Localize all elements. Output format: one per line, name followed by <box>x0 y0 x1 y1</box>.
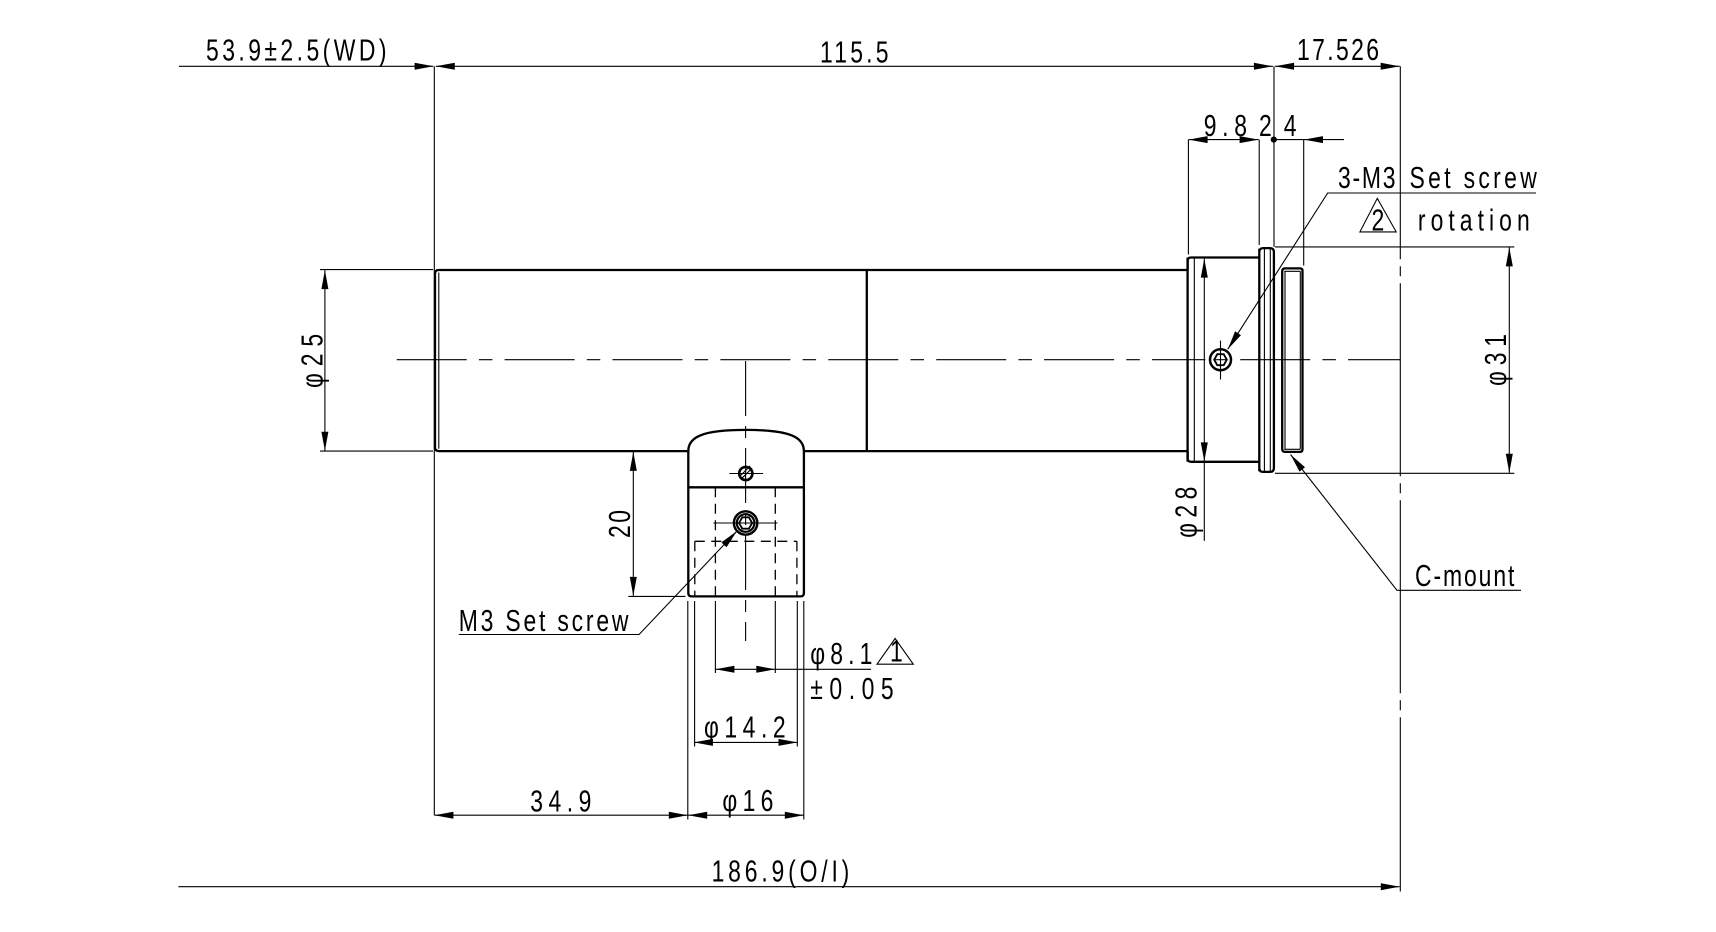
phi31 top extension line <box>1275 246 1514 248</box>
3-M3 leader underline and diagonal <box>1228 193 1536 349</box>
phi28 ring outline <box>1188 258 1259 462</box>
triangle note 2 <box>1360 198 1396 232</box>
extension line 9.8 left <box>1187 140 1189 255</box>
C-mount thread relief lines <box>1284 270 1300 272</box>
svg-text:φ16: φ16 <box>722 783 773 818</box>
svg-text:±0.05: ±0.05 <box>810 671 893 706</box>
phi8.1 dimension line <box>715 668 871 670</box>
block vertical centerline <box>745 361 747 641</box>
svg-text:1: 1 <box>890 633 903 668</box>
phi25 top extension line <box>320 269 433 271</box>
phi31 bottom extension line <box>1275 472 1514 474</box>
barrel left face chamfer line <box>438 273 440 449</box>
3-M3 set screw on phi28 ring <box>1210 349 1231 370</box>
lens barrel phi25 outline <box>435 270 1188 451</box>
dimension 4 line with outside arrow <box>1274 139 1344 141</box>
M3 set screw in block <box>734 511 757 534</box>
dimension 115.5 line <box>436 65 1273 67</box>
34.9 dimension line <box>434 814 687 816</box>
extension line 9.8 right / 2 left <box>1258 140 1260 245</box>
extension line x=1274 (flange right face plane) <box>1273 66 1275 247</box>
barrel joint line <box>866 270 868 451</box>
svg-text:115.5: 115.5 <box>820 34 889 69</box>
dot terminator between dims 2 and 4 <box>1271 137 1277 143</box>
phi28 ring chamfer line <box>1193 258 1195 461</box>
phi31 dimension line <box>1508 247 1510 472</box>
svg-text:2: 2 <box>1259 107 1272 142</box>
triangle note 1 <box>877 639 913 665</box>
extension line 4 right <box>1303 140 1305 266</box>
C-mount leader underline and diagonal <box>1291 455 1522 591</box>
phi8.1 extension lines <box>714 601 716 673</box>
svg-text:53.9±2.5(WD): 53.9±2.5(WD) <box>206 32 386 67</box>
svg-text:M3 Set screw: M3 Set screw <box>459 602 629 637</box>
phi14.2 extension lines <box>694 601 696 747</box>
20 bottom extension line <box>628 595 685 597</box>
phi16 dimension line <box>688 814 804 816</box>
svg-text:C-mount: C-mount <box>1415 557 1515 592</box>
dimension 186.9 O/I line <box>178 886 1399 888</box>
hidden line phi14.2 counterbore left <box>694 541 696 596</box>
C-mount flange focal plane line x=1400 <box>1399 66 1401 891</box>
dimension 53.9 WD line <box>179 65 433 67</box>
svg-text:φ14.2: φ14.2 <box>704 709 786 744</box>
hidden line phi8.1 bore right <box>774 487 776 596</box>
20 dimension line <box>632 452 634 596</box>
svg-text:4: 4 <box>1284 107 1297 142</box>
top slotted screw on block dome <box>739 467 752 480</box>
M3 leader underline and diagonal <box>459 531 737 635</box>
mounting block outline with dome top <box>688 430 804 597</box>
svg-text:φ28: φ28 <box>1168 487 1203 538</box>
block top face line <box>688 486 804 488</box>
svg-text:φ31: φ31 <box>1478 334 1513 386</box>
svg-text:φ8.1: φ8.1 <box>810 636 872 671</box>
ring screw crosshair <box>1220 341 1222 380</box>
block left edge extension below <box>687 601 689 820</box>
svg-text:φ25: φ25 <box>294 334 329 388</box>
block right edge extension below <box>803 601 805 820</box>
svg-text:34.9: 34.9 <box>530 783 591 818</box>
phi31 flange outline <box>1259 248 1274 472</box>
C-mount thread barrel outline <box>1282 268 1302 452</box>
phi28 ring left end face <box>1186 258 1188 462</box>
phi25 bottom extension line <box>320 450 433 452</box>
top screw crosshair <box>729 473 763 475</box>
M3 screw crosshair <box>714 522 778 524</box>
svg-text:9.8: 9.8 <box>1204 107 1247 142</box>
svg-text:17.526: 17.526 <box>1297 31 1379 66</box>
extension line at barrel front x=434 <box>433 66 435 815</box>
phi31 flange chamfer lines <box>1263 249 1265 471</box>
svg-text:2: 2 <box>1372 202 1385 237</box>
main horizontal centerline <box>397 359 1206 361</box>
phi14.2 dimension line <box>694 741 798 743</box>
hidden line counterbore shoulder <box>695 540 797 542</box>
hidden line phi8.1 bore left <box>714 487 716 596</box>
dimension 9.8 line <box>1189 139 1259 141</box>
phi25 dimension line <box>324 270 326 451</box>
svg-text:3-M3: 3-M3 <box>1338 159 1395 194</box>
hidden line phi14.2 counterbore right <box>796 541 798 596</box>
phi28 dimension line <box>1203 259 1205 541</box>
dimension 17.526 line <box>1275 65 1400 67</box>
